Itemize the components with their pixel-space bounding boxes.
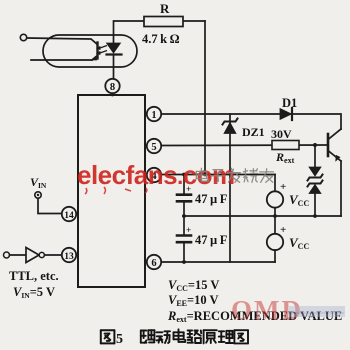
svg-text:5: 5	[151, 142, 156, 153]
source Vcc2	[267, 234, 283, 250]
capacitor C2 47uF	[177, 234, 191, 237]
wire pin8 to IC	[112, 93, 114, 96]
optocoupler phototransistor	[27, 38, 98, 45]
zener DZ1 line pin1 to pin6 net	[229, 114, 231, 262]
diode D1	[280, 109, 292, 120]
terminal TTL input	[4, 252, 10, 258]
svg-text:+: +	[280, 224, 286, 236]
pin 14	[62, 207, 76, 221]
svg-text:+: +	[186, 225, 191, 235]
svg-text:R: R	[160, 1, 170, 16]
pin 13	[62, 248, 76, 262]
svg-text:VCC=15 V: VCC=15 V	[168, 278, 219, 293]
optocoupler body	[43, 35, 137, 67]
pin 8	[105, 79, 119, 93]
IC U1 body	[78, 95, 145, 287]
wire pin1 net with D1 to collector	[161, 114, 341, 129]
svg-text:VIN=5 V: VIN=5 V	[13, 285, 55, 300]
svg-text:47 µ F: 47 µ F	[195, 192, 228, 206]
svg-text:13: 13	[64, 252, 74, 262]
watermark bottom blue	[288, 306, 345, 317]
svg-text:5: 5	[116, 332, 123, 347]
transistor Q1	[327, 134, 330, 156]
wire R drop to Vcc net	[204, 21, 206, 175]
wire pin5 output net to R_ext to base	[161, 144, 328, 147]
svg-text:TTL, etc.: TTL, etc.	[9, 269, 59, 283]
svg-text:47 µ F: 47 µ F	[195, 233, 228, 247]
svg-text:DZ1: DZ1	[242, 125, 265, 139]
wire input to inverter	[10, 254, 27, 256]
zener Z1	[309, 167, 321, 176]
watermark dianzifashaoyou gray	[196, 168, 208, 181]
wire top from LED anode to R to vertical drop	[114, 20, 205, 22]
wire pin6 Vee net	[161, 261, 275, 263]
optocoupler LED D2	[113, 21, 115, 43]
source Vcc1	[267, 191, 283, 207]
wire common emitter line	[183, 215, 341, 217]
svg-text:elecfans.com: elecfans.com	[77, 160, 235, 190]
svg-text:1: 1	[151, 110, 156, 121]
svg-text:14: 14	[64, 211, 74, 221]
wire Vcc1 to Vcc2	[274, 208, 276, 234]
terminal input top-left	[20, 34, 26, 40]
caption Fig5 title	[101, 330, 115, 343]
wire base to zeners	[313, 143, 317, 147]
zener DZ1 symbol	[224, 123, 236, 134]
LED light arrows	[100, 46, 107, 54]
svg-text:VEE=10 V: VEE=10 V	[168, 293, 219, 308]
pin 4	[147, 168, 161, 182]
svg-text:+: +	[280, 181, 286, 193]
resistor R 4.7k box	[144, 17, 183, 27]
inverter buffer TTL	[26, 248, 39, 263]
wire pin4 Vcc net	[161, 174, 275, 176]
watermark red squiggles	[85, 187, 147, 194]
zener Z2	[308, 181, 323, 187]
pin 5	[147, 139, 161, 153]
svg-text:4.7 k Ω: 4.7 k Ω	[142, 32, 180, 46]
wire inverter to pin13	[45, 254, 62, 256]
capacitor C1 47uF	[183, 175, 185, 195]
resistor R_ext box	[272, 141, 299, 150]
svg-text:D1: D1	[282, 96, 297, 110]
wire Vcc1 top	[274, 175, 276, 192]
pin 1	[147, 107, 161, 121]
pin 6	[147, 255, 161, 269]
wire Vcc2 bottom	[274, 250, 276, 262]
terminal Vin	[35, 192, 41, 198]
svg-text:8: 8	[110, 82, 115, 93]
wire Vin to pin14	[38, 199, 62, 214]
svg-text:30V: 30V	[271, 127, 292, 141]
svg-text:6: 6	[151, 258, 156, 269]
